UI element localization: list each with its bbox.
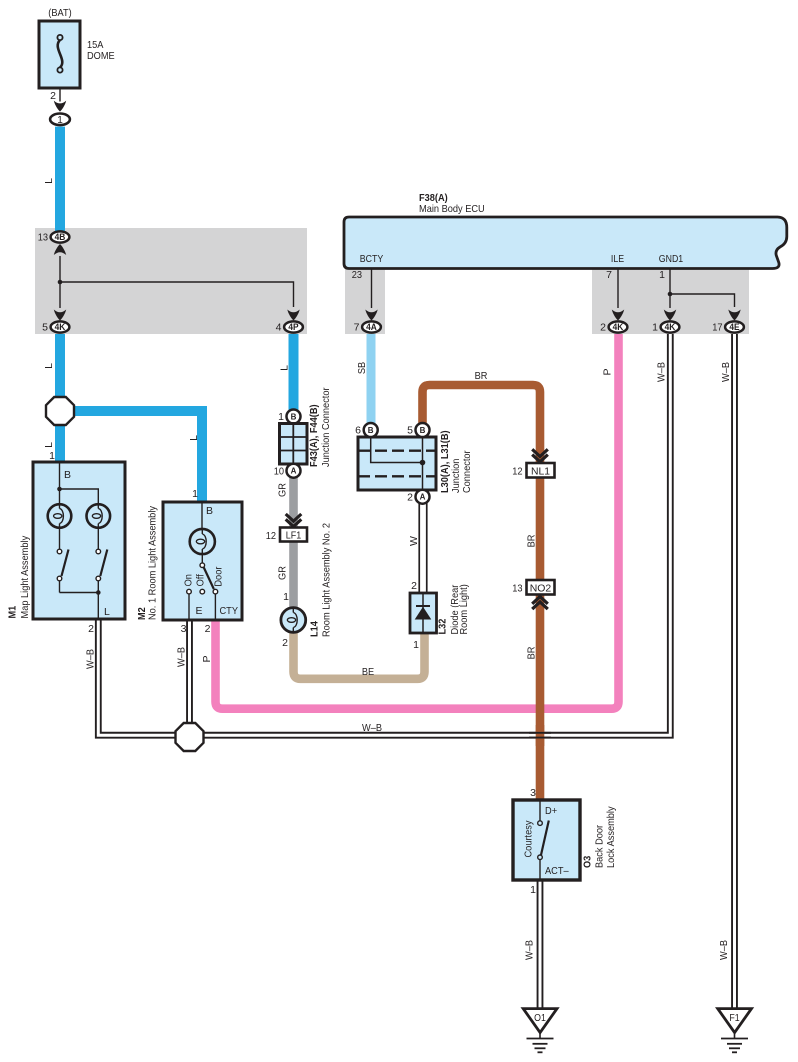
svg-text:1: 1 <box>283 591 289 603</box>
svg-text:L: L <box>43 363 55 369</box>
wire L (blue) 4K to octagon splice <box>55 334 65 400</box>
svg-text:BR: BR <box>475 370 488 382</box>
L14 Room Light Assembly No.2 (bulb) <box>281 523 333 649</box>
ground O1 <box>523 1009 557 1053</box>
svg-text:4K: 4K <box>665 322 676 333</box>
svg-text:12: 12 <box>512 466 522 478</box>
svg-text:7: 7 <box>606 269 612 281</box>
wire P from ECU 4K pin2 to M2 CTY <box>216 334 619 709</box>
svg-text:L: L <box>188 435 200 441</box>
switch M1 left <box>59 528 61 549</box>
svg-text:CTY: CTY <box>220 605 239 617</box>
svg-text:NL1: NL1 <box>531 466 550 478</box>
svg-text:2: 2 <box>88 623 94 635</box>
O3 Back Door Lock Assembly <box>513 787 617 896</box>
svg-text:5: 5 <box>407 425 413 437</box>
svg-text:Courtesy: Courtesy <box>523 820 535 858</box>
svg-text:D+: D+ <box>545 805 557 817</box>
ECU F38(A) Main Body ECU <box>344 192 787 269</box>
junction-block gray band left (4B/4K/4P) <box>35 228 307 334</box>
connector 4A <box>362 321 381 332</box>
svg-text:Off: Off <box>195 574 207 586</box>
svg-text:B: B <box>291 412 297 421</box>
svg-text:W–B: W–B <box>718 940 730 960</box>
wire W-B ECU 4E to ground F1 <box>731 334 738 1009</box>
svg-text:2: 2 <box>282 637 288 649</box>
wire L (blue) octagon to M1 <box>55 422 65 462</box>
svg-text:DOME: DOME <box>87 50 115 62</box>
svg-text:L14: L14 <box>309 621 321 637</box>
svg-text:3: 3 <box>530 787 536 799</box>
svg-text:3: 3 <box>181 623 187 635</box>
svg-text:4: 4 <box>276 322 282 334</box>
svg-text:(BAT): (BAT) <box>48 7 71 19</box>
svg-text:SB: SB <box>356 362 368 374</box>
M2 No.1 Room Light Assembly <box>136 488 242 635</box>
svg-text:2: 2 <box>600 322 606 334</box>
svg-text:Room Light Assembly No. 2: Room Light Assembly No. 2 <box>321 523 333 637</box>
svg-text:ACT–: ACT– <box>545 865 569 877</box>
svg-text:On: On <box>182 574 194 586</box>
svg-text:L: L <box>104 606 110 618</box>
wire BR NO2 to O3 <box>536 594 545 800</box>
connector 4B <box>51 231 70 242</box>
svg-text:5: 5 <box>42 322 48 334</box>
wire BR crossing over W-B bus <box>536 725 545 746</box>
svg-text:2: 2 <box>407 492 413 504</box>
svg-text:GR: GR <box>277 483 289 497</box>
wire W-B M1 pin2 to octagon splice bus <box>98 619 176 735</box>
wire L (blue) octagon branch to M2 <box>70 411 202 502</box>
wire GND1 split <box>669 269 671 309</box>
svg-text:1: 1 <box>278 411 284 423</box>
svg-text:4B: 4B <box>55 232 66 243</box>
splice NO2 <box>527 580 555 595</box>
F43(A),F44(B) junction connector <box>274 387 332 478</box>
splice NL1 <box>527 463 555 478</box>
svg-text:1: 1 <box>192 488 198 500</box>
svg-text:Door: Door <box>212 566 224 586</box>
svg-text:4E: 4E <box>729 322 739 333</box>
svg-text:23: 23 <box>352 269 362 281</box>
connector 4P <box>284 321 303 332</box>
svg-text:6: 6 <box>355 425 361 437</box>
bulb M1 right <box>87 504 111 528</box>
svg-text:1: 1 <box>413 639 419 651</box>
wire ILE to 4K <box>617 269 619 309</box>
svg-text:GND1: GND1 <box>659 254 684 265</box>
switch M2 <box>201 554 203 563</box>
svg-text:Map Light Assembly: Map Light Assembly <box>19 535 31 618</box>
svg-text:7: 7 <box>354 322 360 334</box>
wire SB 4A to L30 junction connector <box>367 334 376 424</box>
connector 4E <box>725 321 744 332</box>
svg-text:1: 1 <box>57 115 63 126</box>
svg-text:L32: L32 <box>437 618 449 634</box>
L32 diode (rear room light) <box>410 580 470 651</box>
svg-text:W–B: W–B <box>176 647 188 667</box>
svg-text:1: 1 <box>652 322 658 334</box>
chevron arrows into LF1 <box>286 514 302 521</box>
chevron arrows up into NO2 <box>532 597 548 604</box>
splice LF1 <box>280 528 307 542</box>
wire inside junction block <box>59 256 61 308</box>
switch M1 right <box>97 528 99 549</box>
svg-text:10: 10 <box>274 466 284 478</box>
svg-text:No. 1 Room Light Assembly: No. 1 Room Light Assembly <box>147 505 159 620</box>
wire fuse pin2 to connector 1 <box>59 88 61 102</box>
connector 4K (left) <box>51 321 70 332</box>
wire W L30 pinA to L32 diode <box>418 503 427 593</box>
svg-text:GR: GR <box>277 566 289 580</box>
wire GR F43 pinA to LF1 <box>289 477 298 528</box>
svg-text:4A: 4A <box>366 322 377 333</box>
svg-text:2: 2 <box>205 623 211 635</box>
svg-text:1: 1 <box>49 450 55 462</box>
bulb M2 <box>190 529 215 554</box>
svg-text:W–B: W–B <box>656 362 668 382</box>
arrowhead down into connector 1 <box>54 101 66 112</box>
svg-text:17: 17 <box>712 322 722 334</box>
svg-text:W–B: W–B <box>720 362 732 382</box>
svg-text:Main Body ECU: Main Body ECU <box>419 203 485 215</box>
svg-text:M1: M1 <box>7 606 19 619</box>
svg-text:BCTY: BCTY <box>360 254 384 265</box>
wire L (blue) 4P to F43 junction connector <box>289 334 299 411</box>
svg-text:BR: BR <box>525 534 537 547</box>
ground F1 <box>718 1009 752 1053</box>
wire W-B O3 pin1 to ground O1 <box>537 880 544 1009</box>
connector 4K (ILE) <box>609 321 628 332</box>
gray band under BCTY <box>345 269 385 335</box>
svg-text:Junction Connector: Junction Connector <box>320 387 332 467</box>
svg-text:L: L <box>43 442 55 448</box>
arrowhead down into 4K <box>54 310 66 321</box>
svg-text:W–B: W–B <box>362 722 382 734</box>
wire W-B M2 pinE to octagon <box>186 620 193 723</box>
connector 4K (GND1) <box>661 321 680 332</box>
svg-text:W: W <box>408 536 420 546</box>
svg-text:W–B: W–B <box>523 940 535 960</box>
bulb M1 left <box>48 504 72 528</box>
fuse 15A DOME <box>39 7 115 88</box>
svg-text:A: A <box>420 493 426 502</box>
arrowhead up into 4B <box>54 244 66 255</box>
svg-text:4P: 4P <box>288 322 299 333</box>
svg-text:1: 1 <box>659 269 665 281</box>
svg-text:LF1: LF1 <box>286 530 302 542</box>
svg-text:ILE: ILE <box>611 254 624 265</box>
wire BR NL1 to NO2 <box>536 478 545 581</box>
svg-text:B: B <box>64 469 71 481</box>
svg-text:L: L <box>43 178 55 184</box>
arrowhead down into 4P <box>287 310 299 321</box>
chevron arrows into NL1 <box>532 449 548 456</box>
svg-text:12: 12 <box>266 530 276 542</box>
svg-text:O3: O3 <box>582 856 594 868</box>
svg-text:2: 2 <box>411 580 417 592</box>
svg-text:BR: BR <box>525 646 537 659</box>
svg-text:B: B <box>420 426 426 435</box>
L30(A),L31(B) junction connector <box>355 423 473 504</box>
svg-text:Room Light): Room Light) <box>458 584 470 634</box>
octagon splice on W-B bus <box>176 723 204 751</box>
svg-text:4K: 4K <box>613 322 624 333</box>
wire BE L14 to L32 <box>294 632 425 679</box>
svg-text:F43(A), F44(B): F43(A), F44(B) <box>308 404 320 467</box>
svg-text:A: A <box>291 467 297 476</box>
svg-text:F1: F1 <box>729 1013 740 1024</box>
wire BCTY to 4A <box>371 269 373 309</box>
svg-text:Connector: Connector <box>461 450 473 493</box>
octagon splice on L wire <box>46 397 74 425</box>
wire GR LF1 to L14 <box>289 542 298 608</box>
svg-text:W–B: W–B <box>85 649 97 669</box>
svg-text:4K: 4K <box>55 322 66 333</box>
svg-text:Back Door: Back Door <box>594 824 606 868</box>
wire BR from L30 pin5 to NL1 <box>423 385 541 463</box>
svg-text:NO2: NO2 <box>530 583 552 595</box>
wire W-B bus octagon to ECU 4K pin1 <box>203 334 670 735</box>
svg-text:13: 13 <box>38 232 48 244</box>
svg-text:Lock Assembly: Lock Assembly <box>605 806 617 868</box>
svg-text:O1: O1 <box>534 1013 546 1024</box>
gray band under ILE/GND1 <box>592 269 749 335</box>
svg-text:2: 2 <box>50 90 56 102</box>
svg-text:13: 13 <box>512 583 522 595</box>
svg-text:P: P <box>602 368 614 375</box>
M1 Map Light Assembly <box>7 450 126 635</box>
connector oval 1 <box>50 114 70 126</box>
svg-text:L: L <box>279 365 291 371</box>
svg-text:B: B <box>368 426 374 435</box>
wire L (blue) fuse to 4B <box>55 127 65 231</box>
svg-text:E: E <box>196 605 203 617</box>
svg-text:P: P <box>201 655 213 662</box>
svg-text:1: 1 <box>530 884 536 896</box>
svg-text:B: B <box>206 505 213 517</box>
svg-text:BE: BE <box>362 666 374 678</box>
